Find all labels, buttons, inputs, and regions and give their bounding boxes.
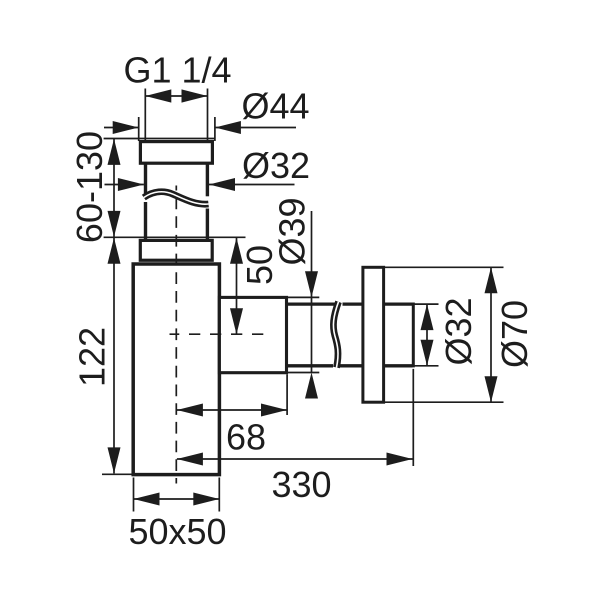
dimension D70: bottom reference line — [384, 401, 504, 403]
dimension 68: right extension line — [286, 374, 288, 415]
dimension G1 1/4: right arrowhead — [182, 89, 208, 102]
dimension 60-130: top arrowhead — [108, 139, 121, 165]
svg-text:50x50: 50x50 — [128, 511, 226, 552]
outlet pipe bottom edge — [287, 364, 333, 367]
outlet connector nut — [219, 297, 286, 372]
dimension D70: top reference line — [384, 266, 504, 268]
top nut — [140, 142, 212, 164]
reference line at flange top (shared by 60-130 / 122 / 50) — [104, 236, 246, 238]
dimension D32 right: bottom extension line — [415, 365, 439, 367]
svg-text:68: 68 — [226, 417, 266, 458]
dimension 330: right extension line — [412, 369, 414, 466]
dimension D32 right: top arrowhead — [421, 304, 434, 330]
dimension 60-130: bottom arrowhead — [108, 211, 121, 237]
dimension D39: lower arrowhead pointing up — [305, 373, 318, 399]
dimension 68: dim line — [177, 409, 287, 411]
dimension D39: upper arrowhead pointing down — [305, 271, 318, 297]
dimension 50x50: left extension line — [133, 478, 135, 512]
dimension D32 right: top extension line — [415, 303, 439, 305]
dimension 50x50: left arrowhead — [134, 493, 160, 506]
dimension D70: bottom arrowhead — [485, 376, 498, 402]
vertical centerline — [175, 186, 177, 484]
outlet break wave white inner line — [333, 302, 338, 368]
dimension D32 top: left tail — [105, 184, 144, 186]
inlet pipe left edge — [144, 163, 147, 194]
dimension 50x50: right arrowhead — [193, 493, 219, 506]
dimension D39: top reference line — [288, 296, 319, 298]
outlet pipe top edge — [287, 302, 335, 305]
dimension G1 1/4: left arrowhead — [145, 89, 171, 102]
dimension 50x50: right extension line — [218, 478, 220, 512]
dimension D44: right arrowhead pointing left — [215, 121, 241, 134]
body bottom left reference line — [102, 473, 134, 475]
svg-text:G1 1/4: G1 1/4 — [123, 50, 231, 91]
dimension 50: bottom arrowhead — [230, 308, 243, 334]
svg-text:Ø70: Ø70 — [494, 300, 535, 368]
svg-text:Ø32: Ø32 — [438, 297, 479, 365]
svg-text:Ø32: Ø32 — [242, 145, 310, 186]
slip nut flange — [140, 240, 212, 260]
reference line at nut top (60-130 top reference) — [104, 138, 215, 140]
dimension D44: right extension line — [214, 117, 216, 141]
dimension 330: left arrowhead — [177, 453, 203, 466]
dimension 122: dim line — [113, 238, 115, 474]
horizontal centerline — [170, 333, 272, 335]
dimension D44: left tail — [104, 127, 139, 129]
dimension D39: bottom reference line — [288, 372, 319, 374]
break wave white inner line — [144, 192, 209, 204]
svg-text:330: 330 — [271, 464, 331, 505]
dimension D70: top arrowhead — [485, 267, 498, 293]
body — [133, 264, 219, 475]
svg-text:Ø44: Ø44 — [241, 86, 309, 127]
svg-text:60-130: 60-130 — [69, 131, 110, 243]
dimension D32 top: right tail — [209, 184, 295, 186]
dimension 60-130: dim line — [113, 139, 115, 237]
dimension 50: top arrowhead — [230, 238, 243, 264]
dimension 68: right arrowhead — [261, 404, 287, 417]
dimension D39: line across pipe — [311, 297, 313, 372]
dimension D32 top: right arrowhead pointing left — [209, 178, 235, 191]
outlet pipe open end — [412, 303, 415, 368]
dimension 122: bottom arrowhead — [108, 447, 121, 473]
dimension 50x50: dim line — [134, 498, 220, 500]
svg-text:122: 122 — [72, 327, 113, 387]
dimension D70: dim line — [490, 267, 492, 402]
dimension D32 top: left arrowhead pointing right — [118, 178, 144, 191]
dimension D32 right: dim line — [426, 304, 428, 366]
dimension D32 right: bottom arrowhead — [421, 340, 434, 366]
svg-text:Ø39: Ø39 — [272, 197, 313, 265]
dimension D44: right tail — [215, 127, 296, 129]
dimension D39: upper leader shaft — [311, 211, 313, 297]
thread pipe left edge / extension line — [144, 89, 146, 142]
dimension 68: left arrowhead — [177, 404, 203, 417]
dimension 50: dim line — [236, 238, 238, 335]
dimension 330: right arrowhead — [387, 453, 413, 466]
wall flange — [363, 267, 384, 402]
dimension D44: left arrowhead pointing right — [113, 121, 139, 134]
dimension D44: left extension line — [138, 117, 140, 141]
dimension G1 1/4: dim line — [145, 95, 207, 97]
break wave band on inlet pipe — [144, 192, 209, 204]
thread pipe right edge / extension line — [207, 89, 209, 142]
inlet pipe right edge — [206, 163, 209, 196]
dimension 122: top arrowhead — [108, 238, 121, 264]
dimension 330: dim line — [177, 458, 413, 460]
break wave band on outlet pipe — [333, 302, 338, 368]
